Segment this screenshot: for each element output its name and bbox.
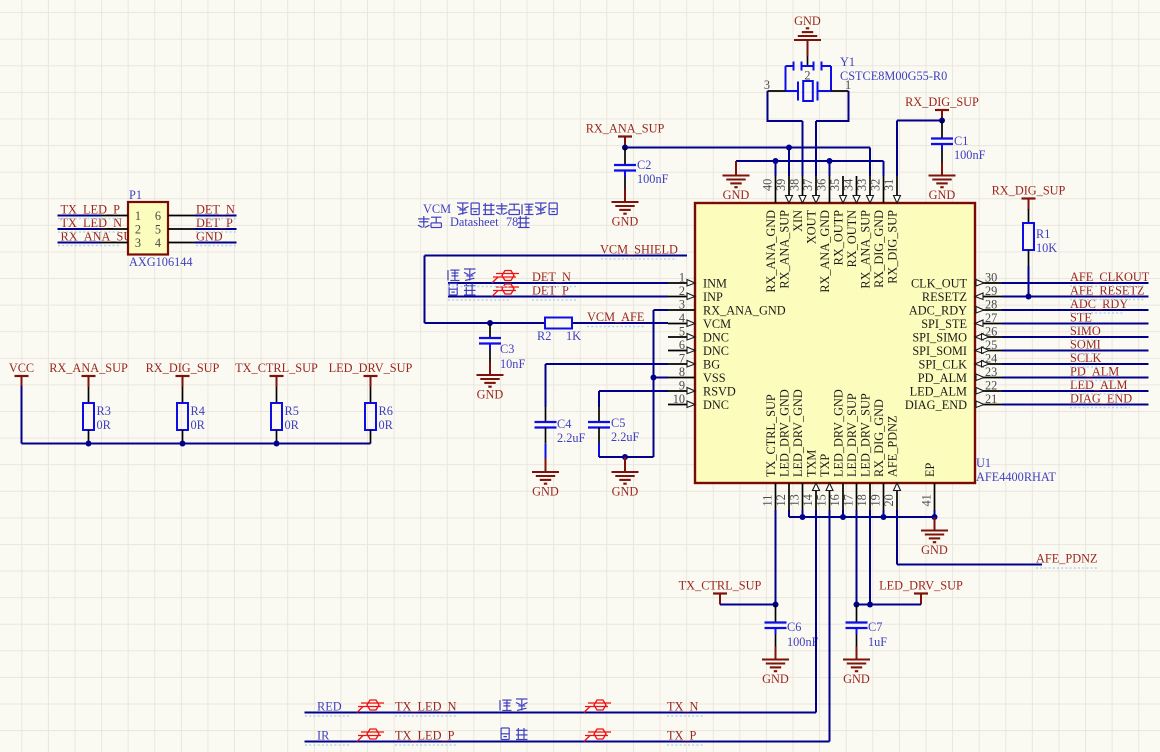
svg-text:RSVD: RSVD bbox=[703, 385, 736, 399]
svg-text:SPI_SOMI: SPI_SOMI bbox=[912, 344, 967, 358]
svg-text:SPI_SIMO: SPI_SIMO bbox=[912, 331, 967, 345]
svg-text:RESETZ: RESETZ bbox=[922, 290, 967, 304]
svg-text:TX_LED_N: TX_LED_N bbox=[395, 700, 457, 714]
svg-text:10nF: 10nF bbox=[500, 357, 525, 371]
svg-text:RX_DIG_SUP: RX_DIG_SUP bbox=[885, 210, 899, 284]
svg-text:VCM_AFE: VCM_AFE bbox=[587, 310, 644, 324]
svg-text:R5: R5 bbox=[285, 404, 299, 418]
svg-text:RX_OUTP: RX_OUTP bbox=[831, 210, 845, 266]
svg-text:RX_DIG_SUP: RX_DIG_SUP bbox=[146, 361, 220, 375]
svg-text:VCC: VCC bbox=[9, 361, 34, 375]
svg-text:RX_ANA_GND: RX_ANA_GND bbox=[703, 304, 786, 318]
svg-text:27: 27 bbox=[985, 311, 997, 325]
svg-text:IR: IR bbox=[317, 729, 330, 743]
svg-text:AFE_PDNZ: AFE_PDNZ bbox=[1036, 552, 1098, 566]
svg-text:3: 3 bbox=[764, 78, 770, 92]
svg-text:AXG106144: AXG106144 bbox=[129, 255, 193, 269]
svg-text:1: 1 bbox=[679, 271, 685, 285]
svg-text:C5: C5 bbox=[611, 416, 625, 430]
svg-text:AFE_CLKOUT: AFE_CLKOUT bbox=[1070, 270, 1150, 284]
svg-text:CSTCE8M00G55-R0: CSTCE8M00G55-R0 bbox=[840, 69, 947, 83]
svg-text:1uF: 1uF bbox=[868, 635, 887, 649]
svg-text:PD_ALM: PD_ALM bbox=[918, 371, 967, 385]
svg-text:2: 2 bbox=[135, 223, 141, 237]
svg-text:U1: U1 bbox=[976, 456, 991, 470]
svg-text:LED_DRV_SUP: LED_DRV_SUP bbox=[845, 393, 859, 477]
svg-text:RX_ANA_SUP: RX_ANA_SUP bbox=[777, 210, 791, 289]
svg-text:TX_LED_P: TX_LED_P bbox=[61, 203, 121, 217]
svg-text:10: 10 bbox=[673, 392, 685, 406]
svg-text:35: 35 bbox=[828, 179, 842, 191]
svg-text:GND: GND bbox=[477, 388, 504, 402]
svg-text:30: 30 bbox=[985, 271, 997, 285]
svg-text:AFE4400RHAT: AFE4400RHAT bbox=[976, 470, 1056, 484]
svg-text:BG: BG bbox=[703, 358, 720, 372]
svg-text:12: 12 bbox=[774, 494, 788, 506]
svg-text:SPI_STE: SPI_STE bbox=[921, 317, 967, 331]
svg-text:18: 18 bbox=[855, 494, 869, 506]
svg-text:VCM_SHIELD: VCM_SHIELD bbox=[600, 243, 678, 257]
svg-text:C7: C7 bbox=[868, 620, 882, 634]
svg-text:37: 37 bbox=[801, 179, 815, 191]
svg-text:LED_DRV_SUP: LED_DRV_SUP bbox=[858, 393, 872, 477]
svg-text:DET_N: DET_N bbox=[532, 270, 571, 284]
svg-text:LED_ALM: LED_ALM bbox=[910, 385, 967, 399]
svg-text:GND: GND bbox=[532, 485, 559, 499]
svg-text:C3: C3 bbox=[500, 342, 514, 356]
svg-text:DIAG_END: DIAG_END bbox=[905, 398, 967, 412]
svg-text:AFE_PDNZ: AFE_PDNZ bbox=[885, 416, 899, 478]
svg-text:RX_DIG_GND: RX_DIG_GND bbox=[872, 210, 886, 288]
svg-text:GND: GND bbox=[929, 188, 956, 202]
svg-text:INM: INM bbox=[703, 277, 727, 291]
svg-text:0R: 0R bbox=[379, 418, 394, 432]
svg-text:GND: GND bbox=[612, 485, 639, 499]
svg-text:5: 5 bbox=[155, 223, 161, 237]
svg-text:1: 1 bbox=[135, 209, 141, 223]
svg-text:2.2uF: 2.2uF bbox=[557, 431, 586, 445]
svg-text:RX_OUTN: RX_OUTN bbox=[845, 210, 859, 268]
svg-text:15: 15 bbox=[815, 494, 829, 506]
svg-text:19: 19 bbox=[869, 494, 883, 506]
svg-text:ADC_RDY: ADC_RDY bbox=[909, 304, 967, 318]
svg-text:RX_ANA_SUP: RX_ANA_SUP bbox=[858, 210, 872, 289]
svg-text:36: 36 bbox=[815, 179, 829, 191]
svg-text:Y1: Y1 bbox=[840, 55, 855, 69]
svg-text:TX_N: TX_N bbox=[667, 700, 699, 714]
svg-text:GND: GND bbox=[794, 14, 821, 28]
svg-text:R1: R1 bbox=[1036, 227, 1050, 241]
svg-text:13: 13 bbox=[788, 494, 802, 506]
svg-text:LED_DRV_SUP: LED_DRV_SUP bbox=[329, 361, 413, 375]
svg-text:TXP: TXP bbox=[818, 454, 832, 477]
svg-text:2: 2 bbox=[804, 69, 810, 83]
svg-text:28: 28 bbox=[985, 298, 997, 312]
svg-text:RX_ANA_GND: RX_ANA_GND bbox=[818, 210, 832, 293]
svg-text:GND: GND bbox=[612, 215, 639, 229]
svg-text:VSS: VSS bbox=[703, 371, 726, 385]
svg-text:100nF: 100nF bbox=[954, 148, 986, 162]
svg-text:DNC: DNC bbox=[703, 331, 729, 345]
svg-text:14: 14 bbox=[801, 494, 815, 506]
svg-text:RX_DIG_SUP: RX_DIG_SUP bbox=[992, 184, 1066, 198]
svg-text:33: 33 bbox=[855, 179, 869, 191]
svg-text:6: 6 bbox=[155, 209, 161, 223]
svg-text:3: 3 bbox=[135, 236, 141, 250]
svg-text:DET_N: DET_N bbox=[196, 203, 235, 217]
svg-text:LED_DRV_GND: LED_DRV_GND bbox=[777, 389, 791, 477]
svg-text:PD_ALM: PD_ALM bbox=[1070, 365, 1119, 379]
svg-text:32: 32 bbox=[869, 179, 883, 191]
svg-text:CLK_OUT: CLK_OUT bbox=[911, 277, 968, 291]
svg-text:16: 16 bbox=[828, 494, 842, 506]
svg-text:XIN: XIN bbox=[791, 210, 805, 232]
svg-text:1K: 1K bbox=[566, 329, 581, 343]
svg-text:C2: C2 bbox=[637, 158, 651, 172]
svg-text:100nF: 100nF bbox=[637, 172, 669, 186]
svg-text:GND: GND bbox=[723, 188, 750, 202]
svg-text:8: 8 bbox=[679, 365, 685, 379]
svg-text:GND: GND bbox=[843, 672, 870, 686]
svg-text:RX_ANA_SUP: RX_ANA_SUP bbox=[586, 122, 665, 136]
svg-text:6: 6 bbox=[679, 338, 685, 352]
svg-text:DNC: DNC bbox=[703, 344, 729, 358]
svg-text:21: 21 bbox=[985, 392, 997, 406]
svg-text:C6: C6 bbox=[787, 620, 801, 634]
svg-text:4: 4 bbox=[679, 311, 685, 325]
svg-text:20: 20 bbox=[882, 494, 896, 506]
svg-text:RX_DIG_SUP: RX_DIG_SUP bbox=[905, 95, 979, 109]
svg-text:0R: 0R bbox=[285, 418, 300, 432]
svg-text:P1: P1 bbox=[129, 188, 142, 202]
svg-text:4: 4 bbox=[155, 236, 161, 250]
svg-text:VCM: VCM bbox=[703, 317, 731, 331]
svg-text:100nF: 100nF bbox=[787, 635, 819, 649]
svg-text:TX_P: TX_P bbox=[667, 729, 697, 743]
svg-text:XOUT: XOUT bbox=[804, 210, 818, 245]
svg-text:TXM: TXM bbox=[804, 450, 818, 477]
svg-text:DET_P: DET_P bbox=[532, 284, 569, 298]
svg-text:R3: R3 bbox=[97, 404, 111, 418]
svg-text:DNC: DNC bbox=[703, 398, 729, 412]
svg-text:RX_ANA_SUP: RX_ANA_SUP bbox=[49, 361, 128, 375]
svg-text:TX_CTRL_SUP: TX_CTRL_SUP bbox=[235, 361, 318, 375]
svg-text:34: 34 bbox=[842, 179, 856, 191]
svg-text:RX_ANA_GND: RX_ANA_GND bbox=[764, 210, 778, 293]
svg-text:TX_CTRL_SUP: TX_CTRL_SUP bbox=[679, 579, 762, 593]
svg-text:3: 3 bbox=[679, 298, 685, 312]
svg-text:EP: EP bbox=[923, 462, 937, 477]
svg-text:39: 39 bbox=[774, 179, 788, 191]
svg-text:41: 41 bbox=[920, 494, 934, 506]
svg-text:22: 22 bbox=[985, 379, 997, 393]
svg-text:RX_DIG_GND: RX_DIG_GND bbox=[872, 399, 886, 477]
svg-text:2.2uF: 2.2uF bbox=[611, 430, 640, 444]
svg-text:VCM: VCM bbox=[423, 202, 451, 216]
svg-text:R6: R6 bbox=[379, 404, 393, 418]
svg-text:11: 11 bbox=[761, 495, 775, 507]
svg-text:0R: 0R bbox=[191, 418, 206, 432]
svg-text:78: 78 bbox=[506, 215, 518, 229]
svg-text:0R: 0R bbox=[97, 418, 112, 432]
svg-text:2: 2 bbox=[679, 284, 685, 298]
svg-text:LED_DRV_SUP: LED_DRV_SUP bbox=[879, 579, 963, 593]
svg-text:GND: GND bbox=[762, 672, 789, 686]
svg-text:9: 9 bbox=[679, 379, 685, 393]
svg-text:LED_DRV_GND: LED_DRV_GND bbox=[791, 389, 805, 477]
svg-text:R2: R2 bbox=[537, 329, 551, 343]
svg-text:29: 29 bbox=[985, 284, 997, 298]
svg-text:7: 7 bbox=[679, 352, 685, 366]
svg-text:10K: 10K bbox=[1036, 241, 1057, 255]
svg-text:TX_CTRL_SUP: TX_CTRL_SUP bbox=[764, 394, 778, 477]
svg-text:31: 31 bbox=[882, 179, 896, 191]
svg-text:40: 40 bbox=[761, 179, 775, 191]
svg-text:17: 17 bbox=[842, 494, 856, 506]
svg-text:TX_LED_P: TX_LED_P bbox=[395, 729, 455, 743]
svg-text:LED_DRV_GND: LED_DRV_GND bbox=[831, 389, 845, 477]
svg-text:GND: GND bbox=[921, 543, 948, 557]
svg-text:SPI_CLK: SPI_CLK bbox=[918, 358, 967, 372]
svg-text:RED: RED bbox=[317, 700, 342, 714]
svg-text:C1: C1 bbox=[954, 134, 968, 148]
svg-text:R4: R4 bbox=[191, 404, 205, 418]
svg-text:C4: C4 bbox=[557, 417, 571, 431]
svg-text:23: 23 bbox=[985, 365, 997, 379]
svg-text:INP: INP bbox=[703, 290, 723, 304]
svg-text:5: 5 bbox=[679, 325, 685, 339]
svg-text:Datasheet: Datasheet bbox=[450, 215, 499, 229]
svg-text:38: 38 bbox=[788, 179, 802, 191]
